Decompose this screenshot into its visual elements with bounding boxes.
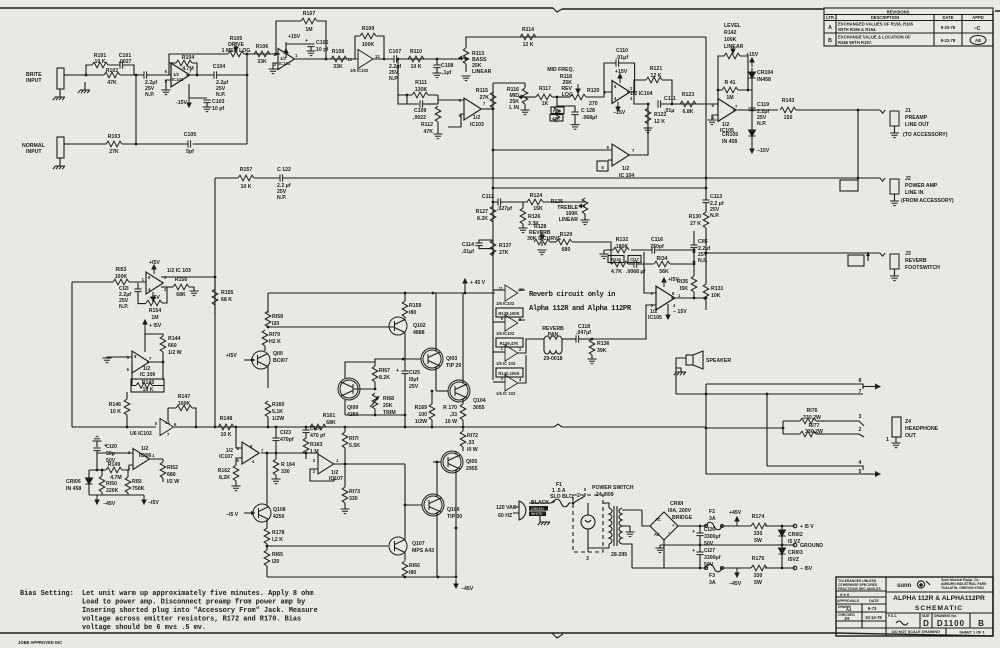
capacitor C115 [690,231,710,264]
resistor R154 feedback [146,287,167,321]
op-amp IC101a [165,63,192,87]
svg-text:660: 660 [168,343,177,349]
junction node [305,452,308,455]
wire IC104a out [627,92,719,104]
junction node [431,390,434,393]
svg-text:C114: C114 [462,242,474,248]
capacitor C101 [119,53,132,69]
svg-text:TIP 30: TIP 30 [447,514,462,520]
junction node [267,426,270,429]
wire [553,8,562,12]
svg-text:B: B [978,619,984,628]
resistor R148 [218,416,234,438]
svg-text:LINEAR: LINEAR [472,69,492,75]
resistor R170 [443,402,466,427]
junction node [402,358,405,361]
wire main feed [706,427,783,429]
junction node [699,544,702,547]
svg-text:SCHEMATIC: SCHEMATIC [915,605,963,612]
wire IC104b loop [493,104,648,160]
text reverb note [529,291,632,313]
lamp [581,503,595,562]
svg-text:10 K: 10 K [241,184,252,190]
resistor R155 [212,277,233,315]
svg-text:8: 8 [859,378,862,384]
wire reverb bus vertical [492,202,494,380]
svg-text:C106: C106 [316,40,329,46]
svg-text:RI7I: RI7I [349,436,359,442]
resistor R119 [550,97,564,122]
svg-text:U6 IC102: U6 IC102 [130,431,152,437]
ground terminal [793,543,823,549]
svg-text:RI53: RI53 [116,267,127,273]
wire ground rail [660,544,795,546]
svg-text:CI27: CI27 [704,548,715,554]
svg-text:R104: R104 [182,55,195,61]
-45V (supply) [729,568,742,587]
transformer secondary [611,508,642,568]
svg-text:,33: ,33 [450,412,457,418]
svg-text:R169: R169 [415,405,428,411]
svg-text:I,2 K: I,2 K [272,537,283,543]
svg-text:1: 1 [678,293,681,298]
svg-text:5W: 5W [754,538,762,544]
svg-text:3055: 3055 [473,405,485,411]
jack BRITE INPUT [26,68,70,89]
resistor R102 [104,68,120,86]
svg-text:2: 2 [313,469,316,474]
ground (IC106a pin5) [103,357,133,363]
svg-text:R149: R149 [108,462,121,468]
svg-text:R147: R147 [178,394,191,400]
ground (plug) [538,516,550,525]
wire +45 rail [268,292,495,294]
wire headphone row8 [706,384,863,389]
transistor Q107 [389,537,434,561]
svg-text:12 K: 12 K [523,42,534,48]
svg-text:R102: R102 [106,68,119,74]
svg-text:1/2: 1/2 [622,166,629,172]
wire [926,581,930,585]
svg-text:10 K: 10 K [110,409,121,415]
svg-text:4: 4 [519,377,522,382]
svg-text:TUALATIN, OREGON 97062: TUALATIN, OREGON 97062 [941,586,984,590]
svg-text:B: B [828,38,832,44]
junction node [267,326,270,329]
svg-text:2: 2 [859,427,862,433]
svg-text:− I5V: − I5V [800,566,813,572]
resistor R171 [342,427,360,464]
svg-text:270: 270 [589,101,598,107]
svg-text:10 K: 10 K [143,387,154,393]
ground (speaker) [674,368,686,375]
svg-text:C108: C108 [441,63,454,69]
wire R101 branch [86,65,134,75]
svg-text:D1100: D1100 [937,619,965,628]
svg-text:+I5V: +I5V [149,260,160,266]
svg-text:FOOTSWITCH: FOOTSWITCH [905,265,940,271]
svg-text:1/6 IC102: 1/6 IC102 [496,331,515,336]
svg-text:CI23: CI23 [280,430,291,436]
svg-text:IC101: IC101 [172,77,184,82]
svg-text:150: 150 [784,115,793,121]
ground (normal jack) [53,158,65,169]
svg-text:27K: 27K [109,149,119,155]
wire R153 input [72,281,146,283]
svg-text:8,2K: 8,2K [219,475,230,481]
svg-text:R131: R131 [711,286,724,292]
svg-text:sunn: sunn [897,583,912,589]
svg-text:−I5 V: −I5 V [226,512,239,518]
svg-text:25K: 25K [383,403,393,409]
wire [0,8,1000,11]
svg-text:R154: R154 [149,308,162,314]
svg-text:.068μf: .068μf [582,115,597,121]
svg-text:C 128: C 128 [581,108,595,114]
svg-text:~C: ~C [974,26,981,32]
wire J1-J2 link [857,110,859,178]
title block [836,577,993,636]
svg-text:GROUND: GROUND [800,543,823,549]
wire drive pot row [169,54,280,63]
svg-text:50μ: 50μ [106,451,115,457]
svg-text:I80: I80 [409,310,416,316]
svg-text:11: 11 [499,286,504,291]
svg-text:H2 K: H2 K [269,339,281,345]
resistor R115 feedback [476,88,496,109]
wire - rail [632,567,795,569]
junction node [404,426,407,429]
node bus x706 top [705,37,707,178]
svg-text:I5K: I5K [680,286,688,292]
svg-text:ALPHA 112R & ALPHA112PR: ALPHA 112R & ALPHA112PR [893,595,985,602]
op-amp IC105b [648,286,681,321]
svg-text:R112: R112 [421,122,433,128]
junction node [344,426,347,429]
wire [552,633,563,638]
-15V (IC103a) [149,292,160,301]
-15V (IC104a) [613,102,626,116]
bias setting note [20,590,318,632]
svg-text:R144: R144 [168,336,181,342]
svg-text:C103: C103 [212,99,225,105]
resistor R179 [262,330,281,351]
svg-text:CR105: CR105 [722,132,738,138]
junction node [462,426,465,429]
resistor R146 [109,392,130,427]
junction node [162,361,165,364]
svg-text:D: D [923,619,929,628]
svg-text:CRI03: CRI03 [788,550,803,556]
resistor R174 [751,514,767,544]
junction node [647,103,650,106]
svg-text:(FROM ACCESSORY): (FROM ACCESSORY) [901,198,954,204]
svg-text:−: − [668,530,671,535]
svg-text:R175: R175 [752,556,765,562]
svg-text:J1: J1 [905,108,911,114]
svg-text:N.P.: N.P. [757,121,767,127]
svg-text:+ I5 V: + I5 V [800,524,814,530]
ground (J2) [890,194,899,206]
svg-text:100K: 100K [724,37,737,43]
svg-text:Z4: Z4 [905,419,911,425]
transistor Q101 [252,351,288,388]
wire main rail y427 [72,426,706,428]
svg-text:REVISIONS: REVISIONS [887,10,910,15]
op-amp IC103b [459,98,486,128]
svg-text:WHITE: WHITE [531,512,543,516]
svg-text:PAN: PAN [548,332,559,338]
op-amp IC101b [274,49,298,70]
resistor R129 [550,232,611,253]
svg-text:5: 5 [155,421,158,426]
svg-text:DRAWING No.: DRAWING No. [934,614,957,618]
wire [0,633,993,636]
junction node [195,426,198,429]
svg-text:1M: 1M [305,27,312,33]
resistor R135 [677,262,697,298]
wire left bus [72,178,215,427]
svg-text:HEADPHONE: HEADPHONE [905,426,939,432]
resistor R131 [703,253,723,310]
svg-text:28-2II5: 28-2II5 [611,552,627,558]
svg-text:R124: R124 [530,193,543,199]
jack NORMAL INPUT [22,137,70,158]
svg-text:R 41: R 41 [725,80,736,86]
ground (brite jack) [53,89,65,100]
junction node [275,452,278,455]
transistor Q102 [389,317,426,371]
svg-text:N.P.: N.P. [710,213,720,219]
svg-text:R157: R157 [240,167,253,173]
svg-text:JH: JH [844,616,849,621]
svg-text:DATE: DATE [869,599,879,603]
wire headphone row5 [706,473,863,475]
bridge CR101 [642,501,693,568]
svg-text:CI25: CI25 [409,370,420,376]
junction node [492,108,495,111]
svg-text:6: 6 [127,367,130,372]
arrow row8 [875,384,881,390]
svg-text:1M: 1M [726,95,733,101]
svg-text:PREAMP: PREAMP [905,115,928,121]
svg-text:+15V: +15V [288,34,301,40]
ground (IC101a pin5) [162,80,172,95]
wire Q105 base [433,461,441,463]
svg-text:4: 4 [673,303,676,308]
svg-text:N,P,: N,P, [698,258,708,264]
resistor R152 [150,459,179,485]
resistor R153 [113,267,129,285]
diode CR106 [66,470,93,495]
svg-text:−15V: −15V [757,148,770,154]
svg-text:IN458: IN458 [757,77,771,83]
resistor R163 [303,438,322,455]
svg-text:3300μf: 3300μf [704,534,721,540]
resistor R156 [161,277,199,298]
svg-text:Bias Setting:: Bias Setting: [20,590,74,598]
svg-text:SLO BLO: SLO BLO [550,494,573,500]
svg-text:RII9: RII9 [553,109,561,114]
svg-text:C110: C110 [616,48,628,54]
svg-text:R121: R121 [650,66,663,72]
resistor R134 [654,256,670,275]
resistor R108 [331,49,347,70]
svg-text:7: 7 [483,101,486,106]
junction node [135,143,138,146]
wire IC107a in [236,427,242,465]
node brite branch [85,74,88,77]
svg-text:F3: F3 [709,573,715,579]
svg-text:+ 45 V: + 45 V [470,280,486,286]
-15V (Q108) [226,511,256,518]
op-amp IC106a [127,351,156,378]
+15V (IC106) [143,320,163,352]
svg-text:R108: R108 [332,49,345,55]
plug hatched labels [529,506,548,516]
wire IC107a-IC107b link [276,453,318,464]
svg-text:RI72: RI72 [467,433,478,439]
resistor R144 [160,336,181,362]
svg-text:1: 1 [152,453,155,458]
wire Q109 base [353,388,375,390]
junction node [693,297,696,300]
wire IC105b input feedback [644,252,656,293]
svg-text:AC: AC [655,517,661,522]
svg-text:CI20: CI20 [106,444,117,450]
ground (IC105a) [708,115,719,125]
svg-text:INPUT: INPUT [26,149,42,155]
svg-text:R111: R111 [415,80,427,86]
resistor R124 [527,193,543,212]
svg-text:330: 330 [754,531,763,537]
resistor R149 [89,462,133,481]
svg-text:R174: R174 [752,514,765,520]
potentiometer R113 BASS [458,48,492,81]
junction node [633,91,636,94]
svg-text:4250: 4250 [273,514,285,520]
svg-text:60 HZ: 60 HZ [498,513,513,519]
svg-text:N.P.: N.P. [119,304,129,310]
svg-text:.0027: .0027 [119,59,132,65]
svg-text:OUT: OUT [905,433,917,439]
revision table [824,8,993,46]
svg-text:AB: AB [975,38,981,43]
junction node [275,426,278,429]
wire IC101b out [293,58,358,60]
+15V (IC103a) [149,260,160,274]
wire IC107a out [261,453,276,459]
wire out node to headphone rail [455,527,458,530]
svg-text:R110: R110 [410,49,422,55]
jack J3 REVERB FOOTSWITCH [848,251,940,271]
svg-text:R123: R123 [682,92,695,98]
svg-text:RI73: RI73 [349,489,360,495]
svg-text:+ I5V: + I5V [149,323,162,329]
svg-text:RI5I: RI5I [132,479,142,485]
capacitor C119 [748,90,769,130]
svg-text:RI58: RI58 [272,314,283,320]
svg-text:3300μf: 3300μf [704,555,721,561]
svg-text:1/2W: 1/2W [272,416,284,422]
transistor Q103 [421,293,461,391]
svg-text:CR104: CR104 [757,70,773,76]
svg-text:POWER SWITCH: POWER SWITCH [592,485,634,491]
text 120VAC [496,505,519,519]
wire reverb to IC105b [592,305,656,339]
-15V (IC105b) [666,304,687,319]
svg-text:APPROVALS: APPROVALS [837,599,860,603]
svg-text:QI09: QI09 [347,405,358,411]
svg-text:IC 106: IC 106 [140,372,155,378]
svg-text:47K: 47K [423,129,433,135]
capacitor C125 [396,368,420,427]
capacitor C114 [462,240,493,255]
resistor R166 [402,561,420,577]
svg-text:DESCRIPTION: DESCRIPTION [871,15,900,20]
svg-text:330: 330 [281,469,290,475]
svg-text:7: 7 [167,432,170,437]
svg-text:33K: 33K [333,64,343,70]
svg-text:2: 2 [519,347,522,352]
resistor R101 [92,53,108,68]
svg-text:C119: C119 [757,102,769,108]
svg-text:,1μf: ,1μf [442,70,452,76]
wire R133 row [611,263,694,265]
svg-text:MPS A43: MPS A43 [412,548,434,554]
capacitor C105 [184,132,197,155]
op-amp IC106b [128,446,155,471]
svg-text:R155: R155 [221,290,234,296]
svg-text:27 K: 27 K [690,221,701,227]
svg-text:C116: C116 [651,237,663,243]
svg-text:WITH R159 & R164.: WITH R159 & R164. [838,27,876,32]
svg-text:1/6 IC102: 1/6 IC102 [496,301,515,306]
svg-text:FRACTIONS DEC ANGLES: FRACTIONS DEC ANGLES [838,587,882,591]
svg-text:−45V: −45V [461,586,474,592]
svg-text:RI50: RI50 [106,481,117,487]
svg-text:R136: R136 [597,341,610,347]
resistor R173 [341,464,361,514]
wire IC101a out [186,74,247,76]
svg-text:ICI06: ICI06 [139,453,152,459]
svg-text:220K: 220K [106,488,119,494]
capacitor C109 [413,100,438,121]
transistor Q104 [448,293,486,411]
resistor R145 [131,367,164,393]
svg-text:4.7K: 4.7K [611,269,622,275]
svg-text:J3: J3 [905,251,911,257]
svg-text:INPUT: INPUT [26,78,42,84]
potentiometer R128 REVERB [527,224,561,255]
svg-text:750K: 750K [132,486,145,492]
svg-text:330: 330 [349,496,358,502]
wire IC106 out [147,362,163,380]
svg-text:6: 6 [614,84,617,89]
wire R132 row [604,250,694,264]
wire headphone row4 [767,466,863,470]
svg-text:LINEAR: LINEAR [724,44,744,50]
node input junction [135,74,138,77]
svg-text:8.2K: 8.2K [477,216,488,222]
transformer primary [588,503,617,548]
wire reverb feed row [493,187,706,189]
svg-text:IN 458: IN 458 [722,139,737,145]
svg-text:QI03: QI03 [446,356,457,362]
svg-text:R103: R103 [108,134,121,140]
svg-text:R146: R146 [109,402,122,408]
svg-text:I0μf: I0μf [409,377,419,383]
